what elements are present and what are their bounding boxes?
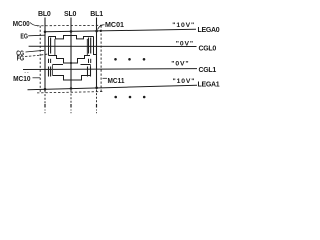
memory cell pair MC10/MC11 side walls	[52, 65, 54, 76]
node dot BL1/LEGA0	[95, 30, 98, 33]
node dot SL0/cell bottom	[70, 62, 72, 64]
svg-text:MC10: MC10	[13, 76, 31, 83]
callout dashed line FG	[25, 54, 49, 57]
node dot BL0/LEGA1	[44, 88, 47, 91]
node dot SL0/LEGA1	[70, 87, 73, 90]
node dot boundary/LEGA0	[100, 30, 102, 32]
floating gate bars right cell MC01	[88, 38, 90, 54]
svg-text:BL1: BL1	[90, 11, 103, 18]
ellipsis dots upper row	[114, 58, 117, 61]
svg-text:BL0: BL0	[38, 11, 51, 18]
svg-text:"10V": "10V"	[173, 78, 196, 85]
memory cell pair MC10/MC11 upper ledges	[53, 64, 64, 66]
callout line MC11	[103, 77, 108, 79]
memory cell pair MC00/MC01 outline top hat	[49, 36, 94, 39]
node dot BL0/LEGA0	[44, 31, 47, 34]
node dot SL0/LEGA0	[70, 30, 73, 33]
inner stack wall left MC00	[54, 39, 56, 56]
svg-text:"0V": "0V"	[176, 40, 194, 47]
dashed cell-block boundary left edge	[39, 26, 41, 93]
floating gate bars cell MC11	[87, 67, 89, 77]
bit line BL0 vertical wire	[44, 18, 46, 91]
svg-text:FG: FG	[17, 56, 25, 63]
BL1 dashed continuation below array	[96, 90, 98, 106]
svg-text:"10V": "10V"	[172, 22, 195, 29]
memory cell pair MC10/MC11 bottom outline	[53, 76, 91, 81]
memory cell pair bottom edge and bump	[49, 56, 91, 64]
svg-text:CGL0: CGL0	[199, 46, 217, 53]
left margin fragment mark	[25, 71, 30, 73]
BL1 end tick	[96, 104, 98, 108]
dashed cell-block boundary right edge	[100, 26, 102, 93]
erase gate line LEGA1 wire	[28, 85, 198, 89]
BL0 dashed continuation below array	[44, 91, 46, 107]
SL0 end tick	[70, 104, 72, 108]
dashed cell-block boundary bottom edge	[37, 92, 103, 93]
source line SL0 vertical wire	[70, 18, 72, 90]
ellipsis dots lower row	[114, 96, 117, 99]
memory cell pair left wall	[48, 37, 50, 56]
erase gate line LEGA0 wire	[45, 29, 196, 32]
svg-text:LEGA0: LEGA0	[198, 27, 220, 34]
dashed cell-block boundary top edge	[37, 24, 103, 27]
inner stack wall right MC01	[86, 39, 88, 56]
node dot BL1/LEGA1	[95, 87, 98, 90]
callout line MC10	[33, 77, 41, 79]
svg-text:MC00: MC00	[13, 21, 30, 28]
gate stack stubs lower-right corner MC01	[88, 59, 90, 63]
bit line BL1 vertical wire	[96, 18, 98, 90]
BL0 end tick	[44, 104, 46, 108]
svg-text:SL0: SL0	[64, 11, 77, 18]
callout curve MC00	[30, 23, 38, 26]
floating gate bars left cell MC00	[50, 38, 52, 54]
svg-text:MC11: MC11	[108, 78, 125, 85]
svg-text:MC01: MC01	[105, 22, 124, 29]
svg-text:LEGA1: LEGA1	[198, 81, 220, 88]
callout line EG	[28, 34, 45, 37]
SL0 dashed continuation below array	[70, 90, 72, 106]
callout curve MC01	[98, 25, 105, 30]
memory cell pair right wall	[94, 37, 97, 55]
control gate line CGL0 wire	[29, 45, 197, 47]
svg-text:"0V": "0V"	[171, 60, 189, 67]
gate stack stubs lower-left corner MC00	[48, 59, 50, 63]
svg-text:EG: EG	[20, 33, 28, 40]
callout line CG	[26, 50, 45, 52]
svg-text:CGL1: CGL1	[199, 67, 217, 74]
floating gate bars cell MC10	[48, 67, 50, 77]
control gate line CGL1 wire	[23, 68, 197, 71]
